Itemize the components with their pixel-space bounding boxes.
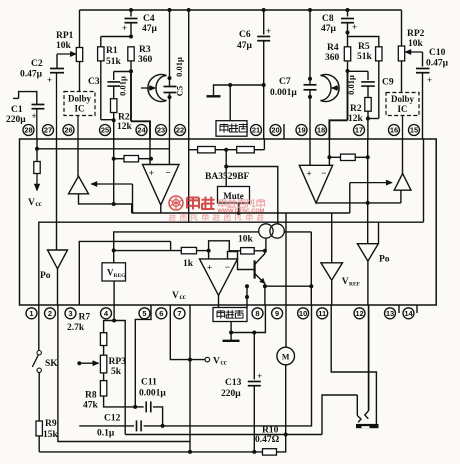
- resistor R1 51k: [101, 36, 131, 38]
- Dolby IC block right: [386, 93, 419, 116]
- svg-text:RP1: RP1: [56, 31, 74, 41]
- svg-text:cc: cc: [180, 293, 186, 301]
- pin 4: [101, 308, 112, 319]
- svg-text:V: V: [172, 291, 179, 301]
- capacitor C3 0.01u: [114, 71, 131, 73]
- transistor Q1: [254, 260, 256, 278]
- svg-text:C13: C13: [225, 378, 242, 388]
- svg-text:0.001μ: 0.001μ: [270, 88, 297, 98]
- switch SK: [38, 305, 40, 351]
- svg-text:V: V: [213, 357, 220, 367]
- svg-text:10k: 10k: [408, 39, 424, 49]
- svg-text:17: 17: [355, 126, 363, 135]
- svg-text:19: 19: [297, 126, 305, 135]
- wire pin1 internal bus y222: [39, 222, 424, 305]
- pin 18: [316, 125, 327, 136]
- buffer amp left (pin26): [77, 139, 79, 176]
- op-amp right output row: [316, 202, 401, 204]
- svg-text:23: 23: [157, 126, 165, 135]
- svg-text:WWW.DZSC.COM: WWW.DZSC.COM: [218, 209, 265, 215]
- wire pin15 internal drop: [423, 139, 425, 222]
- capacitor C4 47u: [130, 10, 132, 17]
- Po amp right: [367, 203, 369, 244]
- capacitor C5 0.01u: [164, 86, 177, 88]
- svg-text:360: 360: [325, 53, 340, 63]
- svg-text:+: +: [207, 263, 212, 273]
- pin 8: [252, 308, 263, 319]
- capacitor C1 220u: [13, 97, 19, 99]
- svg-text:47μ: 47μ: [321, 24, 337, 34]
- svg-text:15k: 15k: [43, 430, 59, 440]
- svg-text:REF: REF: [349, 282, 361, 288]
- pin 6: [156, 308, 167, 319]
- svg-text:C1: C1: [11, 105, 23, 115]
- capacitor C9 0.01u: [348, 70, 369, 72]
- pin 19: [296, 125, 307, 136]
- wire top supply rail: [80, 9, 402, 11]
- wire W1 to pin10: [163, 305, 312, 426]
- svg-text:R1: R1: [106, 46, 118, 56]
- svg-text:V: V: [28, 198, 35, 208]
- svg-text:16: 16: [390, 126, 398, 135]
- capacitor C12 0.1u: [79, 425, 134, 427]
- pin 27: [43, 125, 54, 136]
- svg-text:2: 2: [48, 309, 52, 318]
- pin 7: [174, 308, 185, 319]
- wire pin3 internal: [79, 241, 170, 305]
- svg-text:15: 15: [410, 126, 418, 135]
- svg-text:RP3: RP3: [109, 357, 127, 367]
- pin 24: [136, 125, 147, 136]
- svg-text:C12: C12: [104, 414, 121, 424]
- feedback resistor right: [329, 156, 340, 158]
- wire R3 bottom to pin 24: [130, 71, 132, 121]
- capacitor C10 0.47u: [416, 68, 430, 70]
- svg-text:9: 9: [275, 309, 279, 318]
- wire pin5 jog: [135, 305, 151, 407]
- svg-text:C10: C10: [429, 48, 446, 58]
- svg-text:220μ: 220μ: [6, 115, 26, 125]
- mirror bottom lead: [265, 238, 267, 251]
- pin 1: [26, 308, 37, 319]
- motor M: [285, 305, 287, 347]
- wire pin17 drop to output: [367, 139, 369, 157]
- resistor 10k internal: [209, 241, 230, 251]
- svg-text:11: 11: [318, 309, 326, 318]
- resistor R4 360: [347, 33, 349, 47]
- svg-text:C7: C7: [279, 77, 291, 87]
- svg-text:R7: R7: [79, 313, 91, 323]
- buffer amp right (pin16): [402, 139, 404, 173]
- internal resistor to Vcc (pin28): [36, 149, 38, 162]
- wire pin2 row: [58, 305, 190, 442]
- wire pin6 to Vcc terminal: [170, 305, 205, 360]
- pin 2: [45, 308, 56, 319]
- svg-text:R3: R3: [139, 45, 151, 55]
- wire to Mute top: [225, 167, 227, 187]
- svg-text:+: +: [257, 371, 262, 381]
- svg-text:5: 5: [142, 309, 146, 318]
- svg-text:IC: IC: [74, 104, 84, 114]
- svg-text:0.1μ: 0.1μ: [97, 429, 115, 439]
- svg-text:28: 28: [24, 126, 32, 135]
- wire pin22 internal continuation: [188, 150, 190, 223]
- svg-text:+: +: [352, 22, 357, 32]
- svg-text:24: 24: [137, 126, 146, 135]
- IC BA3529BF body: [20, 139, 437, 305]
- resistor R10 0.47ohm: [263, 449, 277, 455]
- resistor 1k: [114, 250, 182, 252]
- wire W2 motor row: [125, 434, 322, 436]
- svg-text:+: +: [307, 169, 312, 179]
- svg-text:R4: R4: [327, 43, 339, 53]
- pin 13: [385, 308, 396, 319]
- resistor R8 47k: [100, 381, 106, 396]
- svg-text:0.001μ: 0.001μ: [139, 389, 166, 399]
- pin 25: [100, 125, 111, 136]
- wire pin22 to rail: [188, 10, 190, 139]
- pin 20 stub: [283, 124, 285, 139]
- svg-text:Po: Po: [379, 255, 390, 265]
- pin 17: [354, 125, 365, 136]
- svg-text:27: 27: [44, 126, 52, 135]
- potentiometer RP3 5k: [100, 355, 106, 373]
- pin 22: [175, 125, 186, 136]
- wire pin27 to Po left: [56, 139, 58, 250]
- svg-text:0.47μ: 0.47μ: [426, 59, 449, 69]
- op-amp center: [200, 259, 238, 296]
- svg-text:51k: 51k: [106, 57, 122, 67]
- svg-text:12: 12: [355, 309, 363, 318]
- svg-text:47k: 47k: [83, 401, 99, 411]
- emitter row / pin8: [264, 284, 266, 287]
- pin 14 stub: [416, 305, 418, 313]
- svg-text:C8: C8: [322, 14, 334, 24]
- svg-text:+: +: [149, 168, 154, 178]
- wire buffer output loop: [79, 194, 114, 204]
- pin 9: [272, 308, 283, 319]
- svg-text:12k: 12k: [348, 114, 364, 124]
- wire R4 bottom to pin 18: [347, 71, 349, 120]
- resistor R2 12k (left): [111, 99, 117, 113]
- svg-text:25: 25: [101, 126, 109, 135]
- pin 3: [65, 308, 76, 319]
- svg-text:Dolby: Dolby: [391, 94, 415, 104]
- pin 16: [389, 125, 400, 136]
- Po amp left: [48, 250, 68, 269]
- wire R9 ground row W4: [39, 451, 262, 453]
- svg-text:0.47Ω: 0.47Ω: [255, 435, 280, 445]
- pin 23: [156, 125, 167, 136]
- ground (bottom): [230, 333, 232, 341]
- potentiometer RP2 10k: [401, 10, 403, 46]
- svg-text:0.01μ: 0.01μ: [118, 76, 128, 96]
- long internal bus y213: [132, 212, 350, 214]
- pin 12: [354, 308, 365, 319]
- wire emitter row to heatsink: [246, 286, 248, 307]
- resistor R2 12k (right): [365, 98, 371, 112]
- op-amp right: [309, 139, 311, 165]
- capacitor C8 47u: [347, 10, 349, 17]
- magnetic head left: [169, 10, 171, 78]
- svg-text:+: +: [32, 111, 37, 121]
- svg-text:3: 3: [68, 309, 72, 318]
- svg-text:20: 20: [271, 126, 279, 135]
- svg-text:C5: C5: [175, 86, 185, 96]
- svg-text:8: 8: [255, 309, 259, 318]
- svg-text:13: 13: [386, 309, 394, 318]
- svg-text:0.01μ: 0.01μ: [174, 57, 184, 77]
- pin 28: [23, 125, 34, 136]
- svg-text:V: V: [342, 277, 349, 287]
- svg-text:C4: C4: [143, 14, 155, 24]
- svg-text:cc: cc: [36, 200, 42, 208]
- svg-text:C3: C3: [88, 77, 100, 87]
- svg-text:−: −: [321, 168, 326, 178]
- capacitor C13 220u: [253, 333, 255, 380]
- svg-text:1: 1: [29, 309, 33, 318]
- ground (top): [230, 84, 264, 86]
- feedback resistor left (pins 25-24): [113, 139, 115, 204]
- svg-text:47μ: 47μ: [237, 41, 253, 51]
- svg-text:10k: 10k: [56, 41, 72, 51]
- capacitor C6 47u: [263, 10, 265, 35]
- svg-text:+: +: [47, 75, 52, 85]
- svg-text:R5: R5: [358, 42, 370, 52]
- wire pin8 to ground row: [231, 305, 265, 333]
- VREG regulator block: [112, 248, 116, 252]
- Mute block: [218, 187, 250, 204]
- svg-text:47μ: 47μ: [142, 24, 158, 34]
- pin 11: [317, 308, 328, 319]
- svg-text:+: +: [427, 75, 432, 85]
- VREF amp: [331, 213, 333, 263]
- svg-text:14: 14: [404, 309, 413, 318]
- resistor R3 360: [128, 47, 134, 61]
- svg-text:REG: REG: [114, 273, 127, 279]
- capacitor C11 0.001u: [135, 406, 144, 408]
- pin 20: [270, 125, 281, 136]
- svg-text:6: 6: [159, 309, 163, 318]
- pin 5: [139, 308, 150, 319]
- potentiometer RP1 10k: [79, 10, 81, 48]
- pin 10: [298, 308, 309, 319]
- svg-text:RP2: RP2: [407, 29, 425, 39]
- svg-text:C6: C6: [239, 30, 251, 40]
- svg-text:12k: 12k: [117, 122, 133, 132]
- svg-text:1k: 1k: [183, 259, 194, 269]
- op-amp U-left: [149, 139, 151, 165]
- Dolby IC block left: [64, 92, 95, 116]
- capacitor C2 0.47u: [56, 54, 58, 69]
- svg-text:R2: R2: [350, 104, 362, 114]
- wire pin28 internal rail: [36, 139, 38, 149]
- pin 13 stub: [398, 305, 400, 313]
- current mirror: [259, 224, 273, 238]
- svg-text:10k: 10k: [238, 235, 254, 245]
- svg-text:−: −: [166, 168, 171, 178]
- internal 2-resistor row (pins 22-21): [188, 139, 190, 150]
- pin 26: [63, 125, 74, 136]
- wire mirror bus y232: [114, 232, 259, 251]
- watermark logo: [169, 196, 265, 221]
- resistor R9 15k: [38, 373, 40, 422]
- wire pin7 drop: [189, 305, 191, 452]
- svg-text:SK: SK: [45, 359, 58, 369]
- pin 21: [251, 125, 262, 136]
- svg-text:26: 26: [64, 126, 72, 135]
- svg-text:2.7k: 2.7k: [67, 323, 85, 333]
- headphone jack: [356, 395, 358, 416]
- svg-text:BA3529BF: BA3529BF: [205, 172, 250, 182]
- svg-text:18: 18: [317, 126, 325, 135]
- svg-text:5k: 5k: [111, 367, 122, 377]
- svg-text:+: +: [122, 23, 127, 33]
- svg-text:IC: IC: [397, 104, 407, 114]
- resistor R5 51k: [348, 37, 379, 47]
- svg-text:C11: C11: [141, 378, 157, 388]
- svg-text:51k: 51k: [357, 52, 373, 62]
- svg-text:Po: Po: [40, 271, 51, 281]
- svg-text:M: M: [282, 353, 290, 362]
- svg-text:R2: R2: [118, 113, 130, 123]
- svg-text:−: −: [225, 262, 230, 272]
- svg-text:7: 7: [177, 309, 181, 318]
- magnetic head right: [321, 75, 340, 102]
- pin 15: [409, 125, 420, 136]
- heat sink block bottom: [213, 308, 247, 322]
- svg-text:10: 10: [299, 309, 307, 318]
- svg-text:+: +: [266, 26, 271, 36]
- heat sink block top: [229, 85, 231, 121]
- svg-text:22: 22: [176, 126, 184, 135]
- capacitor C7 0.001u: [309, 10, 311, 79]
- wire op-amp left output: [160, 205, 162, 213]
- svg-text:360: 360: [138, 55, 153, 65]
- op-amp center output to heatsink: [218, 295, 220, 307]
- wire pin12 to jack tip: [368, 305, 370, 411]
- drop to mirror top: [225, 150, 227, 167]
- svg-text:R8: R8: [85, 391, 97, 401]
- svg-text:21: 21: [252, 126, 260, 135]
- wire pin11 to jack ring: [331, 305, 376, 424]
- svg-text:Dolby: Dolby: [68, 94, 92, 104]
- wire pin9 drop: [285, 213, 287, 305]
- svg-text:C2: C2: [31, 59, 43, 69]
- svg-text:0.47μ: 0.47μ: [20, 70, 43, 80]
- svg-text:220μ: 220μ: [221, 389, 241, 399]
- pin 14: [403, 308, 414, 319]
- svg-text:R9: R9: [45, 419, 57, 429]
- svg-text:C9: C9: [382, 78, 394, 88]
- svg-text:cc: cc: [221, 359, 227, 367]
